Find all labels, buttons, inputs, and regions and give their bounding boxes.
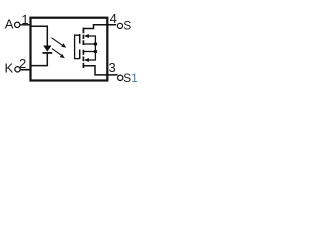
svg-text:1: 1 <box>21 12 28 27</box>
svg-text:A: A <box>5 17 14 32</box>
svg-text:S: S <box>123 19 131 33</box>
svg-text:4: 4 <box>110 11 117 26</box>
svg-text:3: 3 <box>109 60 116 75</box>
svg-text:S1: S1 <box>123 71 138 85</box>
svg-text:2: 2 <box>19 56 26 71</box>
svg-text:K: K <box>5 61 14 76</box>
